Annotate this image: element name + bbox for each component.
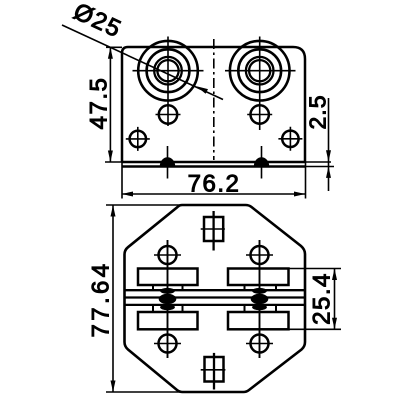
dimension 77.64 line bbox=[112, 205, 114, 392]
die block rect upper-left bbox=[138, 269, 198, 286]
dimension 77.64 top arrow bbox=[111, 205, 116, 217]
right column centerline bbox=[259, 240, 261, 358]
boss U2 ring 4 bbox=[249, 60, 270, 81]
dimension 47.5 line bbox=[109, 47, 111, 162]
connector tab left-upper-b bbox=[182, 285, 184, 290]
hole H2 below right boss bbox=[251, 105, 269, 123]
die block rect lower-right bbox=[228, 312, 289, 329]
boss U1 vertical centerline bbox=[167, 37, 169, 127]
extension line bottom of 77.64 bbox=[106, 391, 183, 393]
svg-text:2.5: 2.5 bbox=[305, 95, 331, 130]
extension line bottom of 25.4 bbox=[289, 328, 342, 330]
key square K1 top bbox=[204, 217, 223, 241]
extension line left body edge down to 76.2 dim bbox=[121, 162, 123, 199]
pin hole P1 horizontal tick bbox=[154, 254, 181, 256]
extension tick bottom of 47.5 bbox=[105, 161, 122, 163]
rivet dome D2 bbox=[254, 158, 268, 167]
svg-text:77.64: 77.64 bbox=[88, 260, 115, 337]
dimension 47.5 top arrow bbox=[108, 47, 113, 59]
rivet dome D2 centerline bbox=[261, 146, 263, 179]
screw hole S2 right bbox=[282, 131, 298, 147]
top view bottom bend line bbox=[122, 161, 305, 164]
boss U2 outer circle bbox=[230, 41, 290, 101]
boss U1 ring 3 bbox=[154, 57, 182, 85]
dimension 47.5 bottom arrow bbox=[108, 151, 113, 163]
boss U1 ring 4 bbox=[157, 60, 178, 81]
pin hole P2 horizontal tick bbox=[246, 254, 273, 256]
svg-text:25.4: 25.4 bbox=[309, 272, 336, 325]
connector tab right-upper-b bbox=[275, 285, 277, 290]
crimp slot line 3 bbox=[125, 304, 306, 306]
top view main centerline bbox=[213, 39, 215, 160]
pin hole P3 lower-left bbox=[159, 335, 177, 353]
svg-text:Ø25: Ø25 bbox=[69, 0, 126, 43]
connector tab left-lower-a bbox=[152, 305, 154, 312]
ball detent B1 bottom ellipse bbox=[160, 304, 175, 310]
connector tab left-lower-b bbox=[182, 305, 184, 312]
screw hole S2 crosshair bbox=[278, 127, 302, 151]
key square K1 horizontal centerline bbox=[201, 228, 225, 230]
dimension 2.5 upper arrow bbox=[326, 150, 331, 162]
pin hole P2 upper-right bbox=[251, 246, 269, 264]
crimp slot line 1 bbox=[125, 289, 306, 291]
extension line right body edge down to 76.2 dim bbox=[305, 162, 307, 199]
svg-text:76.2: 76.2 bbox=[188, 171, 241, 198]
dimension 25.4 bottom arrow bbox=[332, 318, 337, 330]
ball detent B2 middle ellipse bbox=[251, 294, 269, 304]
die block rect lower-left bbox=[138, 312, 198, 329]
dimension 2.5 lower arrow bbox=[326, 166, 331, 178]
screw hole S1 left bbox=[130, 131, 146, 147]
pin hole P4 horizontal tick bbox=[246, 343, 273, 345]
connector tab right-lower-b bbox=[275, 305, 277, 312]
hole H1 horizontal centerline bbox=[156, 114, 181, 116]
dimension 76.2 right arrow bbox=[294, 192, 306, 197]
connector tab right-lower-a bbox=[244, 305, 246, 312]
connector tab right-upper-a bbox=[244, 285, 246, 290]
left column centerline bbox=[167, 240, 169, 358]
extension line right of bend line for 2.5 bbox=[305, 161, 331, 163]
rivet dome D1 bbox=[160, 158, 174, 167]
extension line top of 77.64 bbox=[106, 204, 182, 206]
key square K2 horizontal centerline bbox=[201, 369, 226, 371]
ball detent B2 top ellipse bbox=[252, 288, 267, 294]
boss U1 horizontal centerline bbox=[133, 70, 204, 72]
die block rect upper-right bbox=[228, 269, 289, 286]
hole H2 horizontal centerline bbox=[247, 114, 272, 116]
extension line top-left of 47.5 bbox=[106, 46, 122, 48]
crimp slot line 2 bbox=[125, 296, 306, 298]
svg-text:47.5: 47.5 bbox=[86, 77, 113, 130]
boss U1 ring 2 bbox=[147, 49, 190, 92]
pin hole P3 horizontal tick bbox=[154, 343, 181, 345]
boss U2 vertical centerline bbox=[259, 37, 261, 131]
octagon plate outline bbox=[125, 205, 306, 392]
dimension 25.4 top arrow bbox=[332, 269, 337, 281]
dimension 77.64 bottom arrow bbox=[111, 381, 116, 393]
hole H1 below left boss bbox=[159, 105, 177, 123]
rivet dome D1 centerline bbox=[167, 146, 169, 179]
dimension 76.2 left arrow bbox=[122, 192, 134, 197]
pin hole P1 upper-left bbox=[159, 246, 177, 264]
ball detent B2 bottom ellipse bbox=[252, 304, 267, 310]
boss U2 horizontal centerline bbox=[225, 70, 296, 72]
connector tab left-upper-a bbox=[152, 285, 154, 290]
key square K1 vertical centerline bbox=[212, 211, 214, 251]
leader arrowhead bbox=[197, 86, 209, 94]
key square K2 bottom bbox=[205, 357, 224, 382]
screw hole S1 crosshair bbox=[126, 127, 150, 151]
top view body outline bbox=[122, 47, 305, 162]
top view flange bottom edge bbox=[122, 165, 305, 168]
leader line for diameter 25 bbox=[62, 25, 223, 100]
ball detent B1 middle ellipse bbox=[159, 294, 177, 304]
pin hole P4 lower-right bbox=[251, 335, 269, 353]
boss U1 outer circle bbox=[138, 41, 198, 101]
dimension 25.4 line bbox=[334, 269, 336, 330]
extension line top of 25.4 bbox=[289, 268, 342, 270]
ball detent B1 top ellipse bbox=[160, 288, 175, 294]
boss U2 ring 3 bbox=[246, 57, 274, 85]
extension line right of flange bottom for 2.5 bbox=[305, 166, 334, 168]
key square K2 vertical centerline bbox=[213, 353, 215, 390]
dimension 76.2 line bbox=[122, 193, 306, 195]
dimension 2.5 line bbox=[328, 98, 330, 191]
boss U2 ring 2 bbox=[238, 49, 281, 92]
